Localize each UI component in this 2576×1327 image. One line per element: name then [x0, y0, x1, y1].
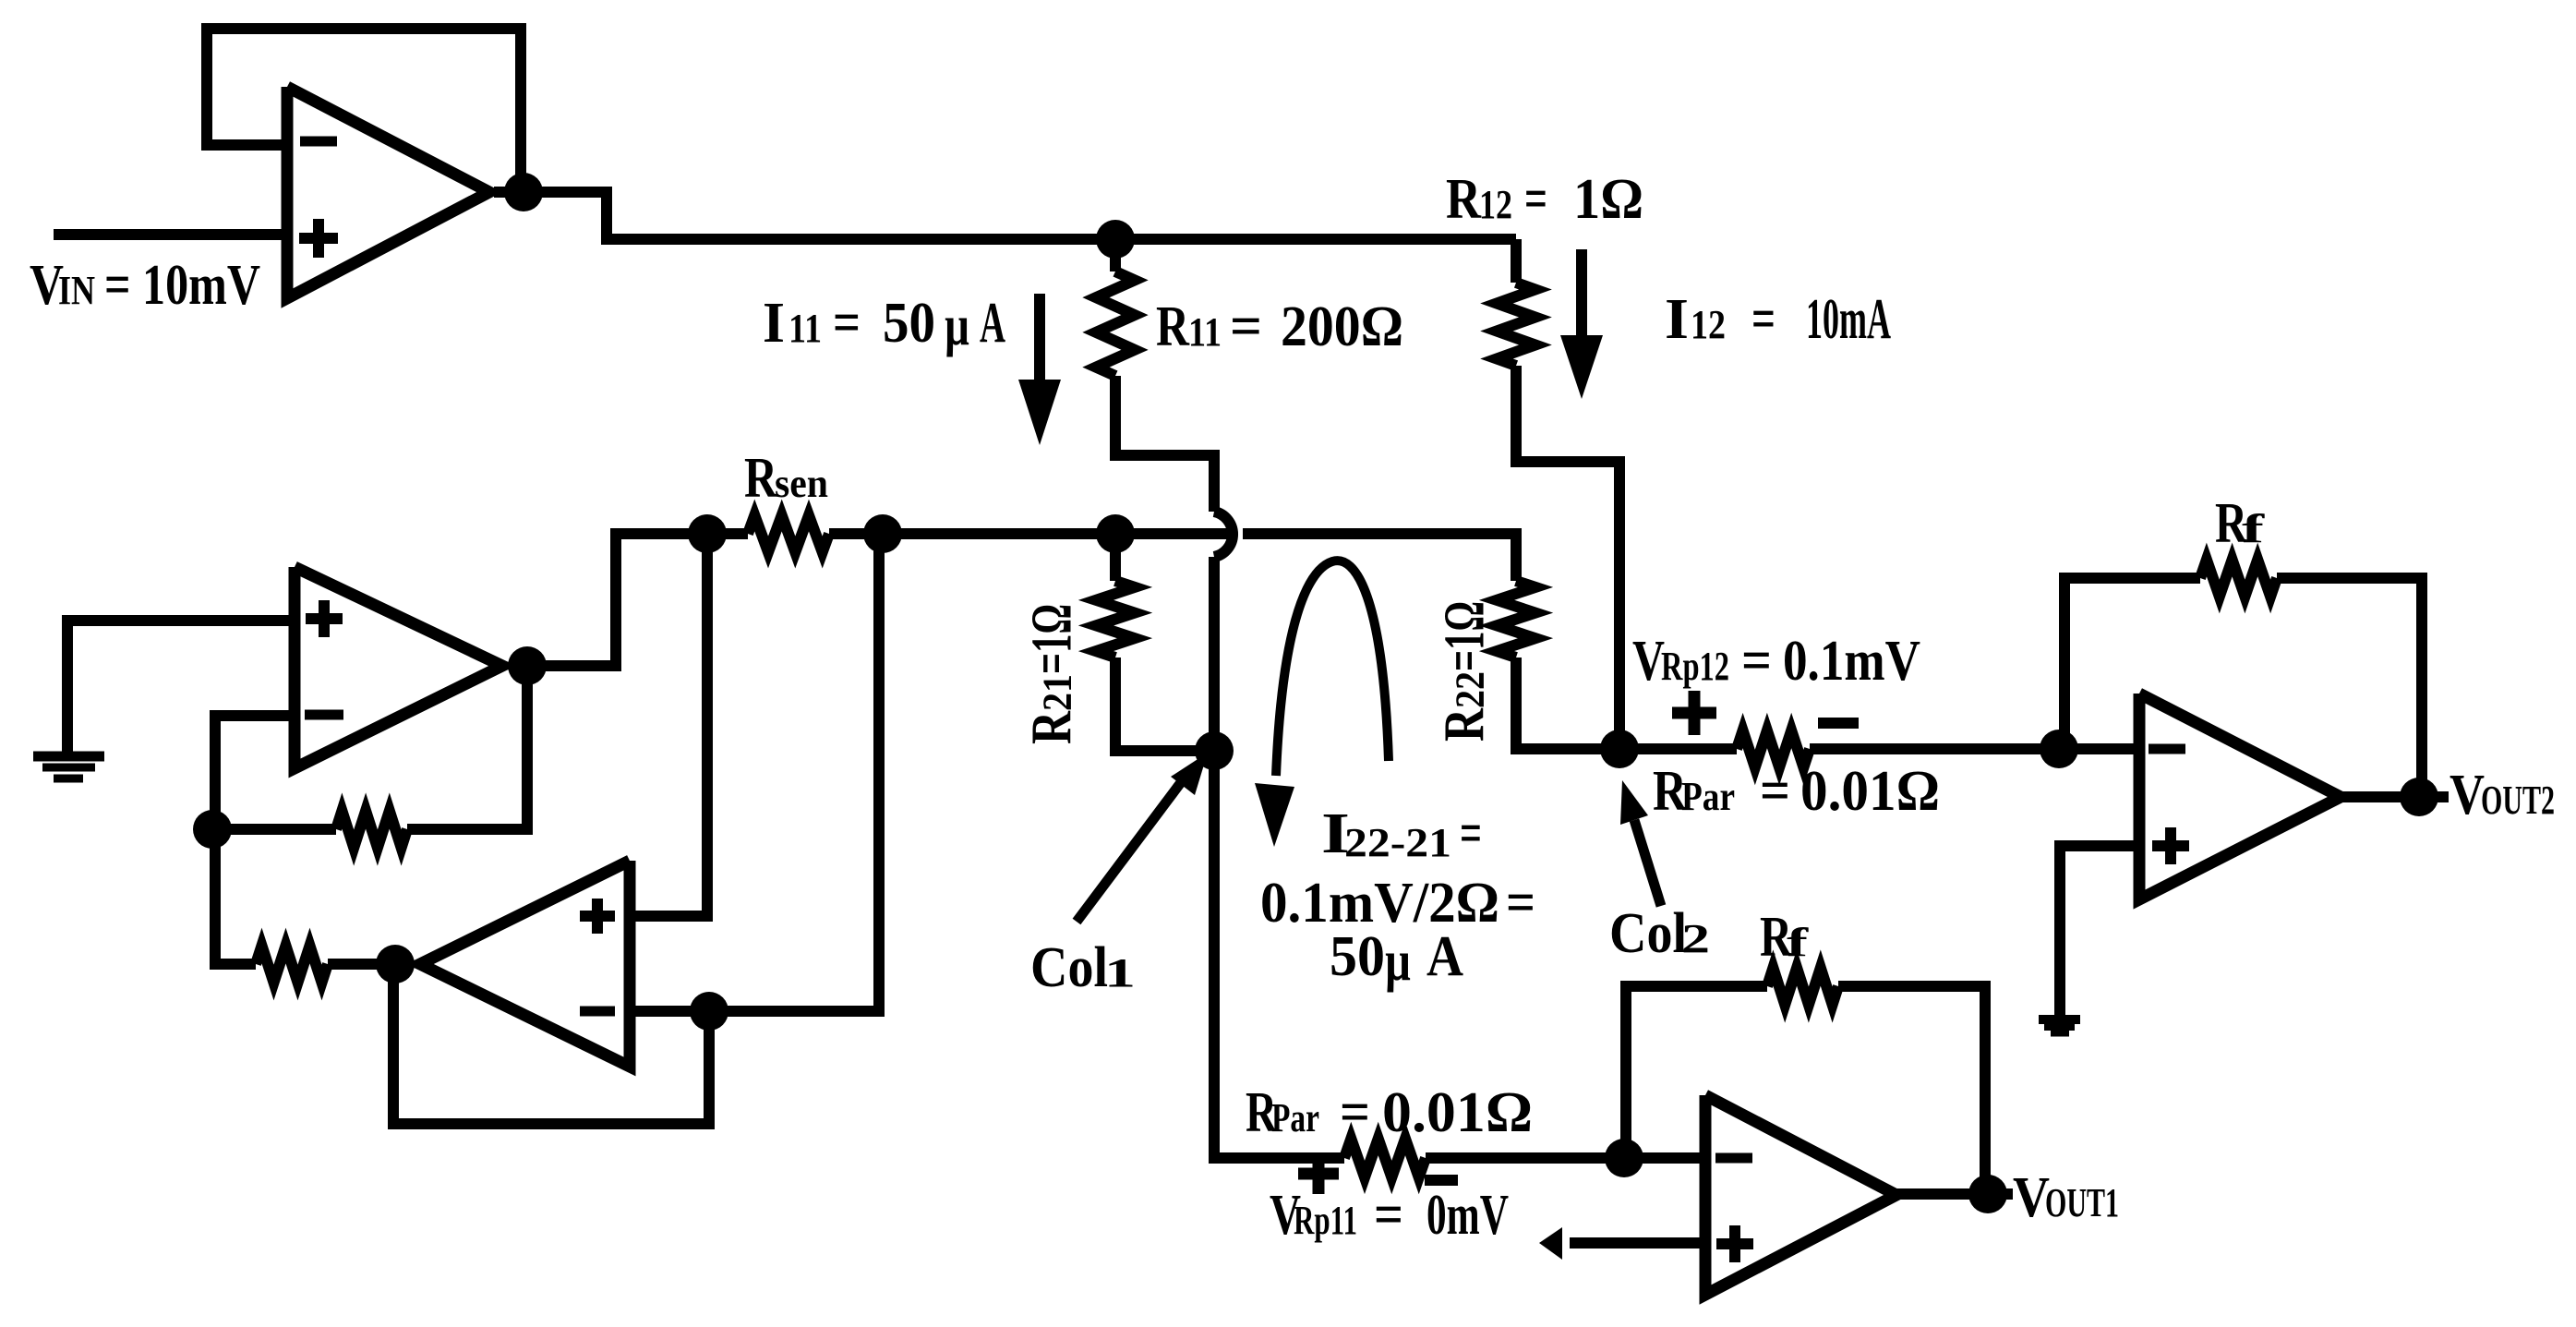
resistor RPar top (horizontal) — [1737, 730, 1810, 767]
svg-text:I: I — [1665, 288, 1689, 351]
svg-text:R: R — [1446, 168, 1482, 231]
node: Rsen right dot — [863, 514, 902, 553]
wire: R12 bottom down, jog right, down to Col2 — [1516, 366, 1619, 749]
svg-text:=: = — [1760, 760, 1790, 823]
minus sign (VRp12 polarity) — [1818, 718, 1859, 729]
svg-text:= 10mV: = 10mV — [104, 254, 260, 317]
U3 plus sign — [580, 911, 615, 922]
svg-text:=: = — [1374, 1184, 1403, 1247]
node: U1 output dot — [504, 173, 543, 211]
svg-text:A: A — [980, 292, 1005, 355]
svg-text:=: = — [1524, 168, 1547, 231]
svg-text:V: V — [2450, 764, 2485, 826]
label R21=1ohm (rotated) — [1021, 604, 1084, 744]
resistor R12 (vertical) — [1497, 283, 1535, 366]
svg-text:A: A — [1426, 925, 1463, 988]
svg-text:Rp11: Rp11 — [1294, 1198, 1357, 1243]
op-amp U5 (VOUT1) — [1705, 1095, 1896, 1295]
ground symbol (U4 plus) — [2039, 1015, 2080, 1024]
node: U3 output dot — [376, 945, 415, 983]
U5 minus sign — [1715, 1153, 1752, 1164]
svg-text:Rp12: Rp12 — [1661, 644, 1729, 689]
wire: U2 plus input to ground — [67, 621, 295, 752]
arrow I12 (current down) — [1576, 249, 1587, 344]
U4 plus sign — [2152, 840, 2189, 851]
node N4: U4 minus input — [2040, 730, 2078, 768]
svg-text:R: R — [1434, 707, 1497, 742]
svg-text:=: = — [1460, 802, 1482, 865]
svg-text:0.01Ω: 0.01Ω — [1382, 1081, 1533, 1144]
svg-text:11: 11 — [788, 306, 822, 351]
wire: R21 bottom to Col1 node — [1115, 657, 1214, 751]
resistor Rsen (horizontal) — [748, 515, 829, 552]
node: VOUT1 dot — [1968, 1175, 2007, 1213]
U1 plus sign — [299, 233, 338, 244]
resistor R22 (vertical) — [1497, 581, 1535, 657]
svg-text:0.1mV: 0.1mV — [1783, 630, 1920, 693]
wire: U5 plus input with reference arrow — [1570, 1237, 1705, 1249]
node: Rsen left dot — [688, 514, 727, 553]
wire: U1 feedback loop output to minus input — [207, 29, 521, 192]
op-amp U4 (VOUT2) — [2139, 694, 2341, 899]
resistor RPar bottom (horizontal) — [1344, 1139, 1426, 1177]
svg-text:R: R — [1156, 296, 1190, 358]
svg-text:Col: Col — [1030, 936, 1108, 999]
resistor: U3 output resistor (horizontal) — [256, 946, 328, 983]
wire: R12 branch from main row — [1511, 239, 1522, 283]
svg-text:=: = — [1741, 630, 1772, 693]
node: R21 top junction — [1096, 514, 1135, 553]
wire: R11 bottom, jog right, down with hop to Col1 — [1115, 376, 1214, 512]
resistor Rf top (horizontal) — [2200, 560, 2277, 597]
node A2 — [193, 810, 232, 849]
op-amp U2 (left upper) — [295, 567, 502, 768]
svg-text:=: = — [1340, 1081, 1370, 1144]
U5 plus sign — [1716, 1238, 1753, 1249]
node Col2 — [1600, 730, 1639, 768]
arrow I11 (current down) — [1034, 294, 1045, 383]
arrow Col2 pointer — [1634, 820, 1661, 906]
svg-text:Col: Col — [1609, 902, 1687, 965]
wire: U4 plus input to ground — [2060, 846, 2139, 1015]
svg-text:=: = — [1506, 872, 1535, 935]
svg-text:11: 11 — [1188, 309, 1222, 355]
ground symbol (U2 plus) — [33, 752, 104, 762]
svg-text:22-21: 22-21 — [1344, 820, 1451, 865]
svg-text:V: V — [1632, 630, 1665, 693]
wire: Col1 down to bottom RPar row — [1214, 751, 1344, 1158]
svg-text:R: R — [744, 447, 778, 510]
arrow Col1 pointer — [1077, 781, 1182, 922]
svg-text:10mA: 10mA — [1806, 288, 1891, 351]
wire: U2 output to Rsen row — [527, 534, 748, 666]
svg-text:OUT2: OUT2 — [2481, 778, 2555, 823]
svg-text:=: = — [1230, 296, 1262, 358]
svg-text:0.01Ω: 0.01Ω — [1800, 760, 1940, 823]
svg-text:1Ω: 1Ω — [1573, 168, 1643, 231]
svg-text:=1Ω: =1Ω — [1434, 601, 1497, 671]
wire: R22 bottom to Col2 node — [1516, 657, 1619, 749]
node: U3 minus feedback dot — [690, 992, 728, 1031]
resistor R21 (vertical) — [1096, 581, 1135, 657]
wire: Rsen row to R22 column — [829, 528, 1232, 539]
svg-text:50: 50 — [1330, 925, 1385, 988]
svg-text:IN: IN — [58, 268, 95, 313]
U1 minus sign — [300, 137, 337, 147]
resistor R11 (vertical) — [1096, 271, 1135, 376]
svg-text:0mV: 0mV — [1426, 1184, 1509, 1247]
wire: U1 output to main row — [494, 192, 1516, 239]
wire: U2 feedback: output down to resistor — [407, 666, 527, 829]
svg-text:Par: Par — [1681, 774, 1735, 819]
wire: U4 output — [2341, 791, 2449, 802]
node: U2 output dot — [508, 646, 547, 685]
svg-text:I: I — [763, 292, 785, 355]
svg-text:sen: sen — [775, 461, 828, 506]
svg-text:200Ω: 200Ω — [1281, 296, 1403, 358]
resistor Rf bottom (horizontal) — [1767, 968, 1838, 1005]
wire: VIN input to U1 + — [54, 229, 287, 240]
wire: U5 minus row — [1624, 1152, 1705, 1164]
svg-text:f: f — [1787, 920, 1810, 965]
label R22=1ohm (rotated) — [1434, 601, 1497, 742]
svg-text:R: R — [1021, 710, 1084, 744]
wire hop over Rsen row — [1214, 512, 1233, 557]
curved arrow I22-21 — [1276, 561, 1389, 776]
svg-text:2: 2 — [1681, 916, 1710, 961]
wire: U3 minus row up to Rsen dot2 — [630, 534, 879, 1011]
wire: U5 output — [1896, 1188, 2013, 1200]
wire: resistor to U3 output dot — [328, 959, 395, 970]
svg-text:12: 12 — [1479, 182, 1512, 227]
svg-text:=: = — [1751, 288, 1776, 351]
wire: RPar top to U4 minus node — [1810, 743, 2139, 754]
svg-text:Par: Par — [1271, 1095, 1319, 1140]
resistor: U2 feedback (horizontal) — [336, 811, 407, 848]
svg-text:OUT1: OUT1 — [2045, 1180, 2119, 1225]
node N5: U5 minus input — [1605, 1139, 1643, 1177]
wire: U3 feedback loop — [393, 964, 709, 1124]
op-amp U3 (left-pointing) — [420, 861, 630, 1067]
svg-text:µ: µ — [945, 295, 969, 357]
wire: U5 feedback with Rf — [1626, 986, 1767, 1158]
wire: U2 minus input down to node A2 — [215, 716, 295, 829]
svg-text:µ: µ — [1385, 930, 1411, 993]
wire: Col2 row to RPar top — [1619, 743, 1737, 754]
plus sign (VRp11 polarity) — [1298, 1168, 1339, 1180]
svg-text:22: 22 — [1448, 671, 1493, 708]
svg-text:50: 50 — [883, 292, 935, 355]
svg-text:=1Ω: =1Ω — [1021, 604, 1084, 674]
op-amp U1 (input buffer) — [287, 87, 489, 298]
wire: A2 down to U3 input resistor — [215, 829, 256, 964]
svg-text:21: 21 — [1035, 674, 1080, 711]
svg-text:12: 12 — [1691, 302, 1726, 347]
U2 plus sign — [306, 613, 343, 624]
node Col1 — [1195, 731, 1234, 770]
minus sign (VRp11 polarity) — [1425, 1175, 1458, 1186]
wire: U4 feedback with Rf — [2064, 578, 2200, 749]
wire: U3 plus input up to Rsen dot1 — [630, 534, 707, 916]
arrowhead: U5 plus reference — [1539, 1227, 1562, 1260]
U3 minus sign — [580, 1007, 615, 1017]
node: VOUT2 dot — [2400, 778, 2438, 816]
U4 minus sign — [2149, 744, 2185, 754]
wire: feedback resistor to A2 — [215, 824, 336, 835]
svg-text:1: 1 — [1104, 950, 1136, 995]
wire: RPar to N5 — [1426, 1152, 1624, 1164]
node N1: main row / R11 junction — [1096, 220, 1135, 259]
plus sign (VRp12 polarity) — [1672, 707, 1716, 719]
U2 minus sign — [305, 710, 343, 720]
wire: Rsen row right of hop — [1243, 534, 1516, 581]
svg-text:f: f — [2242, 506, 2266, 551]
svg-text:=: = — [833, 292, 861, 355]
